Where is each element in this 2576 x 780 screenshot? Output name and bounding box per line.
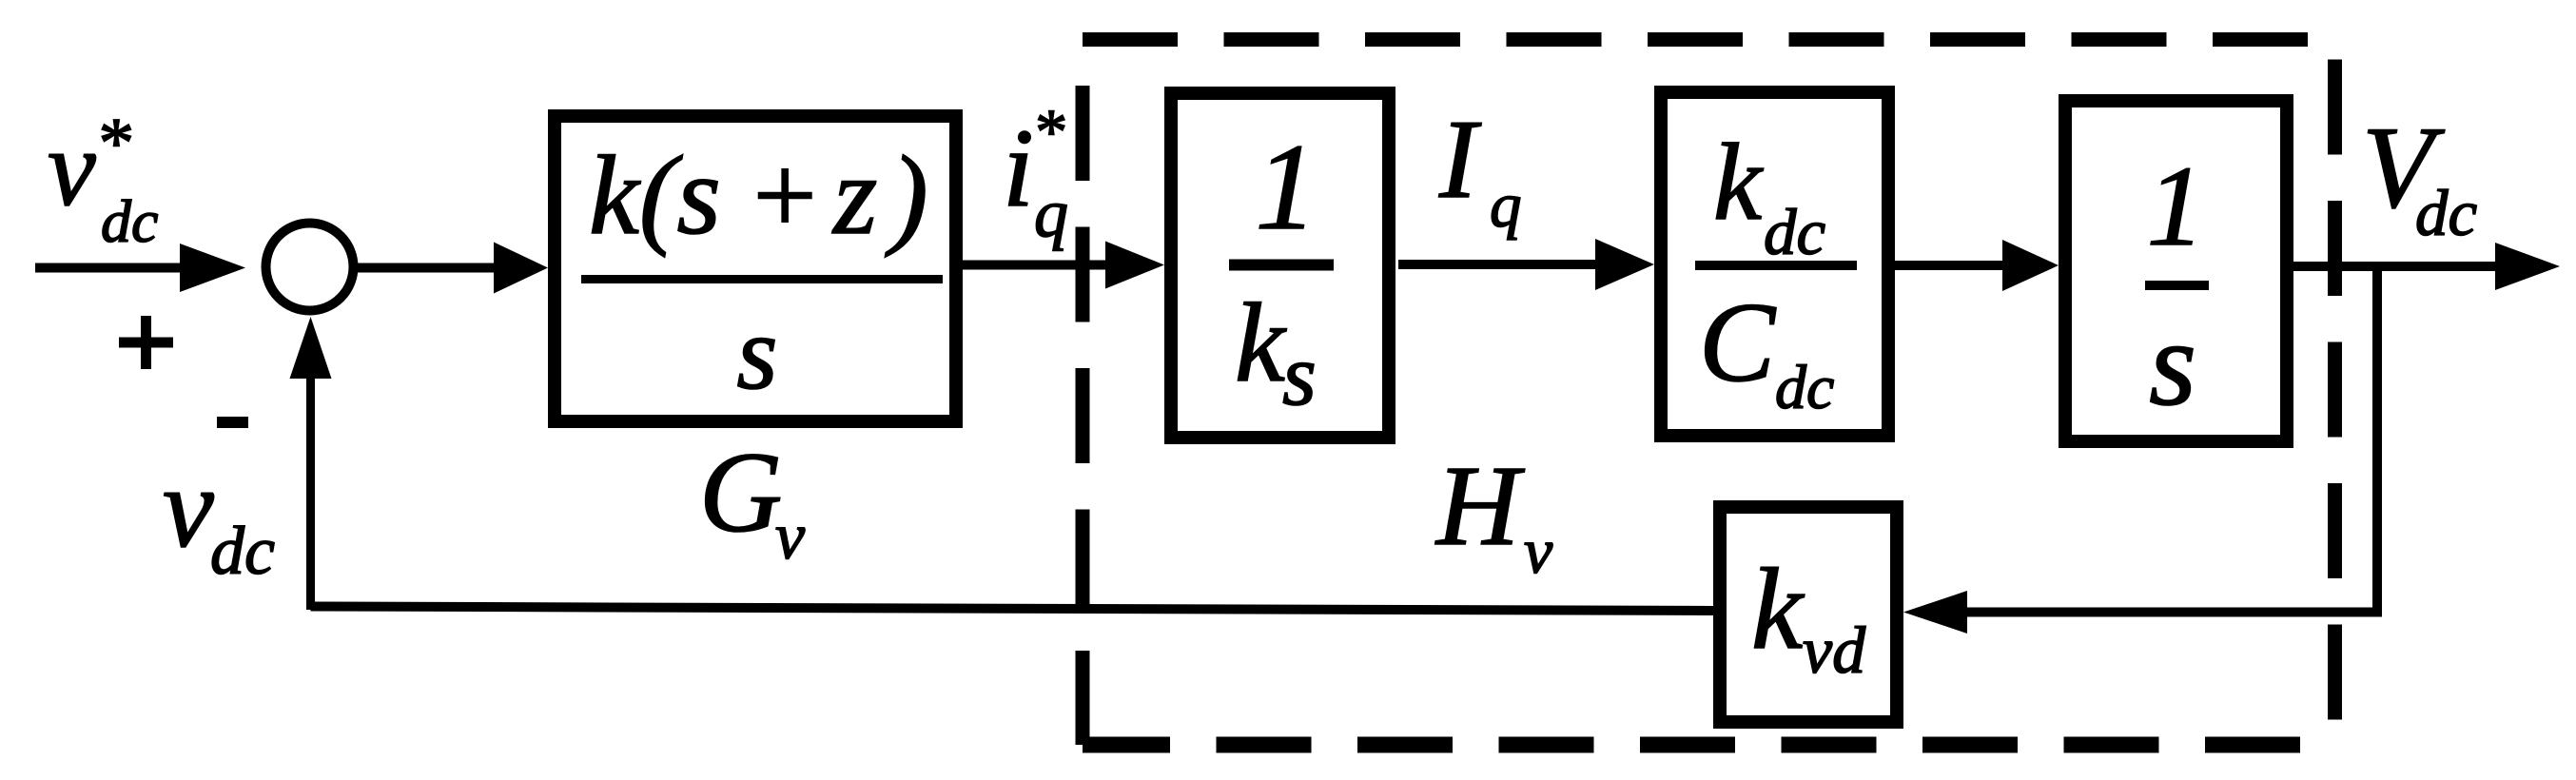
svg-text:1: 1: [2147, 143, 2205, 270]
svg-text:H: H: [1434, 442, 1525, 570]
wire input arrow into summing junction: [35, 244, 245, 292]
label Gv below block: [699, 429, 806, 574]
svg-text:k: k: [1713, 122, 1764, 243]
wire kdc/Cdc to 1/s block: [1895, 240, 2059, 291]
plus sign at summing junction: [119, 316, 173, 369]
svg-text:vd: vd: [1803, 614, 1866, 688]
block kvd feedback gain: [1720, 507, 1897, 722]
svg-text:k(s: k(s: [589, 132, 721, 258]
node vdc* reference input label: [48, 104, 158, 255]
dashed box Hv left edge: [1076, 40, 1090, 746]
wire 1/ks to kdc/Cdc block: [1398, 239, 1654, 290]
svg-text:+: +: [746, 132, 822, 258]
svg-text:q: q: [1034, 175, 1068, 251]
wire feedback left horizontal from kvd to summing junction column: [311, 607, 1714, 612]
summing junction: [266, 224, 354, 311]
block Gv transfer function k(s+z)/s: [555, 116, 956, 421]
label Hv inside dashed box: [1434, 442, 1553, 587]
wire feedback right horizontal into kvd: [1903, 591, 2382, 634]
svg-text:C: C: [1699, 279, 1777, 405]
block 1/s integrator: [2065, 101, 2287, 441]
svg-text:v: v: [1524, 515, 1553, 587]
svg-text:v: v: [48, 107, 96, 228]
svg-text:v: v: [775, 500, 806, 574]
svg-text:*: *: [95, 104, 131, 183]
svg-text:G: G: [699, 429, 782, 556]
svg-text:): ): [885, 132, 928, 258]
node Vdc output label: [2362, 102, 2477, 249]
svg-text:dc: dc: [1764, 196, 1825, 268]
svg-text:z: z: [831, 132, 877, 258]
dashed box Hv top edge: [1083, 32, 2335, 47]
svg-text:1: 1: [1256, 119, 1317, 256]
svg-text:s: s: [736, 295, 777, 412]
wire Gv to 1/ks block: [963, 242, 1164, 289]
svg-text:k: k: [1751, 545, 1805, 673]
node vdc feedback label: [163, 444, 275, 589]
svg-text:q: q: [1490, 170, 1522, 241]
wire feedback vertical up into summing junction: [290, 317, 332, 610]
svg-text:*: *: [1032, 95, 1064, 167]
dashed box Hv right edge: [2328, 40, 2342, 746]
node iq* label: [1003, 95, 1068, 251]
svg-text:dc: dc: [2415, 177, 2477, 249]
svg-text:s: s: [2149, 296, 2196, 431]
block 1/ks: [1171, 93, 1389, 438]
wire 1/s to Vdc output: [2293, 243, 2560, 290]
minus sign at summing junction: [217, 417, 248, 428]
dashed box Hv bottom edge: [1083, 737, 2335, 753]
node Iq label: [1438, 96, 1522, 241]
svg-text:I: I: [1438, 96, 1482, 222]
svg-text:s: s: [1282, 326, 1317, 423]
svg-text:v: v: [163, 444, 214, 572]
svg-text:dc: dc: [210, 513, 275, 589]
svg-text:dc: dc: [1775, 353, 1834, 422]
svg-text:dc: dc: [101, 187, 158, 255]
wire summing junction to Gv block: [358, 243, 548, 294]
svg-text:i: i: [1003, 106, 1034, 230]
block kdc/Cdc: [1661, 92, 1888, 436]
wire feedback tap from Vdc down: [2372, 266, 2382, 613]
svg-text:k: k: [1235, 280, 1287, 405]
